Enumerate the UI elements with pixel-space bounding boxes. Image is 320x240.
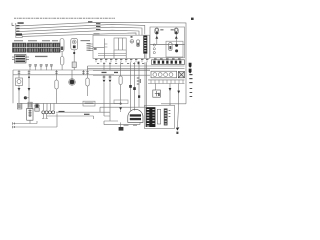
ECU label above box [94, 33, 100, 34]
ECU internal blob [131, 36, 133, 37]
ignition coil primary box [27, 108, 33, 120]
left drop wire [12, 70, 14, 103]
diagonal wire with arrow [177, 104, 178, 128]
battery lead 2 [13, 114, 57, 128]
main dark connector strip [146, 107, 156, 127]
connector group labels row [14, 40, 58, 41]
wire y112 [56, 111, 110, 113]
G2 pickup arrow [175, 36, 178, 39]
center vertical wires from ECU [104, 62, 110, 70]
noise filter box with circle [18, 75, 20, 78]
label N.L [18, 22, 24, 24]
G2 label [171, 29, 174, 30]
connector strip row2 [13, 48, 61, 52]
grommet ring [35, 104, 38, 107]
right edge tick labels [189, 74, 192, 97]
NE pickup pill [169, 43, 173, 51]
ECU pin stubs left [89, 44, 94, 51]
dark wire label box [16, 33, 22, 35]
rail pair2 right [148, 80, 185, 84]
inner small box [157, 109, 160, 124]
A C label [59, 111, 65, 113]
bottom right box [145, 105, 175, 128]
wire y103.8 right [161, 103, 186, 105]
wires into bottom box [169, 104, 171, 106]
glyph column in lower box [153, 44, 155, 54]
ECU box [93, 35, 150, 58]
wire bus L1 [16, 22, 186, 103]
connector cell slits [14, 44, 58, 52]
pin name labels row2 [97, 62, 144, 65]
resistor pill mid-left [56, 75, 58, 80]
rail pair mid [93, 70, 150, 75]
G1 label [160, 29, 163, 30]
wire color labels on bus starts [16, 21, 100, 32]
ECU internal wires [93, 48, 126, 56]
arrow down 1 [18, 88, 21, 91]
ECU internal pill [137, 40, 140, 47]
noise condenser dark circle [70, 80, 75, 85]
tick label L [12, 23, 14, 26]
distributor connector labels [154, 58, 181, 59]
dark blob under pins [138, 62, 140, 65]
wire y107.2 center [100, 106, 146, 108]
ignition coil row circles [44, 104, 55, 111]
pickup coil G1 [155, 28, 159, 34]
distributor connector strip [152, 60, 185, 65]
condenser dark dot [24, 96, 27, 99]
wire with arrow right2 [178, 84, 180, 104]
resistor pill x120 [120, 62, 122, 76]
wires below strip [144, 54, 146, 59]
igniter block [12, 55, 29, 64]
label box on wire [83, 101, 95, 106]
distributor box upper [150, 27, 185, 45]
ECU connector strip dark [143, 36, 147, 54]
wire bus L3 [16, 27, 142, 35]
pickup coil G2 [174, 28, 178, 34]
title text [14, 17, 115, 19]
label 2 [176, 132, 178, 134]
resistor block with X [178, 72, 184, 78]
inline resistor x87 [87, 75, 89, 78]
second connector strip slots [152, 109, 154, 124]
junction blob [138, 95, 140, 98]
arrow into distributor [119, 107, 122, 110]
pin ticks [96, 60, 147, 62]
page marker A top-right [191, 18, 194, 20]
distributor cap terminals box [151, 71, 177, 78]
spark plug [72, 62, 76, 68]
center wires with blobs [131, 62, 135, 110]
arrow down 2 [28, 88, 31, 91]
signal generator inner box [166, 41, 183, 57]
pin labels under igniter [29, 64, 53, 65]
junction connector box [114, 100, 128, 104]
wire bus L4 [16, 30, 139, 35]
page connector arrows right [189, 63, 192, 74]
label IC IGNITER [35, 56, 48, 57]
ECU internal circle [130, 40, 134, 44]
arrow down x104 [103, 80, 106, 83]
ECU pin row labels bottom [95, 59, 148, 60]
pill below [60, 57, 64, 66]
arrow down x110 [109, 80, 112, 83]
rotor block [119, 127, 124, 131]
shield label box [16, 36, 22, 38]
ECU inner logic box [114, 38, 126, 50]
rotor dark dots [175, 44, 178, 47]
coil secondary wire and dot [73, 50, 75, 62]
wire y103.6 center [19, 102, 122, 104]
ECU label E1 [94, 48, 97, 50]
rail B [13, 74, 114, 76]
wire color label column [137, 78, 141, 85]
ground box 1 [17, 103, 22, 109]
connector ticks below rails [103, 75, 112, 79]
third connector strip [164, 109, 168, 126]
wire bus L2 [16, 24, 145, 34]
bracket wires around cap [104, 116, 118, 121]
wire y116 [47, 116, 94, 119]
ignition coil [71, 38, 78, 50]
G1 pickup arrow [155, 36, 158, 39]
mid rail labels [102, 72, 119, 73]
coil label [81, 40, 91, 41]
rail A [13, 69, 150, 71]
left bus vertical wire [15, 23, 17, 36]
ECU internal transistor [104, 39, 107, 59]
bracket line labels [124, 125, 138, 126]
wire bus L5 [22, 33, 136, 37]
distributor box lower [150, 45, 185, 58]
connector strip row1 [13, 43, 61, 47]
battery lead 1 [13, 121, 37, 124]
resistor pill left of coil [60, 39, 64, 52]
bottom box small label marks [169, 110, 171, 117]
inline connector symbols on rails [18, 66, 89, 75]
wires from ECU right side down [145, 62, 147, 107]
ECU internal verticals [114, 50, 126, 58]
rail pair1 [88, 66, 185, 68]
small relay box [35, 108, 39, 111]
condenser box [155, 84, 157, 91]
ground box 2 [28, 102, 32, 108]
distributor cap [128, 109, 143, 122]
wire with arrow right1 [169, 84, 171, 106]
wire 2 with junction dot [28, 75, 30, 102]
